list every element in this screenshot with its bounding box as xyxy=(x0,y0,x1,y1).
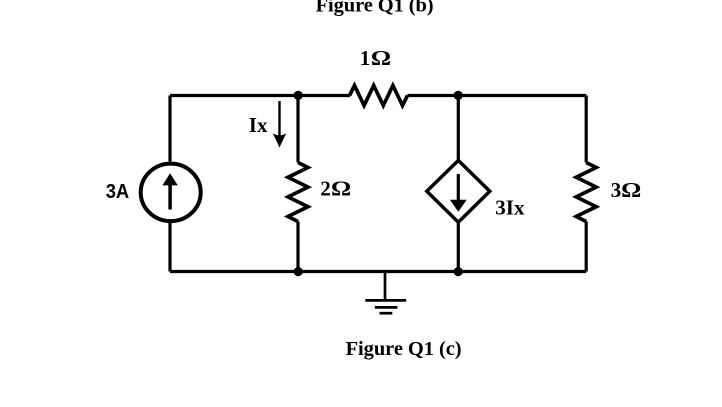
svg-text:Figure Q1 (c): Figure Q1 (c) xyxy=(346,338,462,360)
svg-text:2: 2 xyxy=(320,176,331,200)
svg-text:3Ix: 3Ix xyxy=(495,195,525,219)
svg-text:Ω: Ω xyxy=(371,47,391,71)
svg-text:Ix: Ix xyxy=(249,113,268,137)
svg-text:Ω: Ω xyxy=(621,179,641,203)
svg-text:3A: 3A xyxy=(106,180,130,203)
svg-text:3: 3 xyxy=(611,178,622,202)
svg-text:Figure Q1 (b): Figure Q1 (b) xyxy=(316,0,434,17)
svg-text:Ω: Ω xyxy=(331,177,351,201)
svg-text:1: 1 xyxy=(360,46,371,70)
